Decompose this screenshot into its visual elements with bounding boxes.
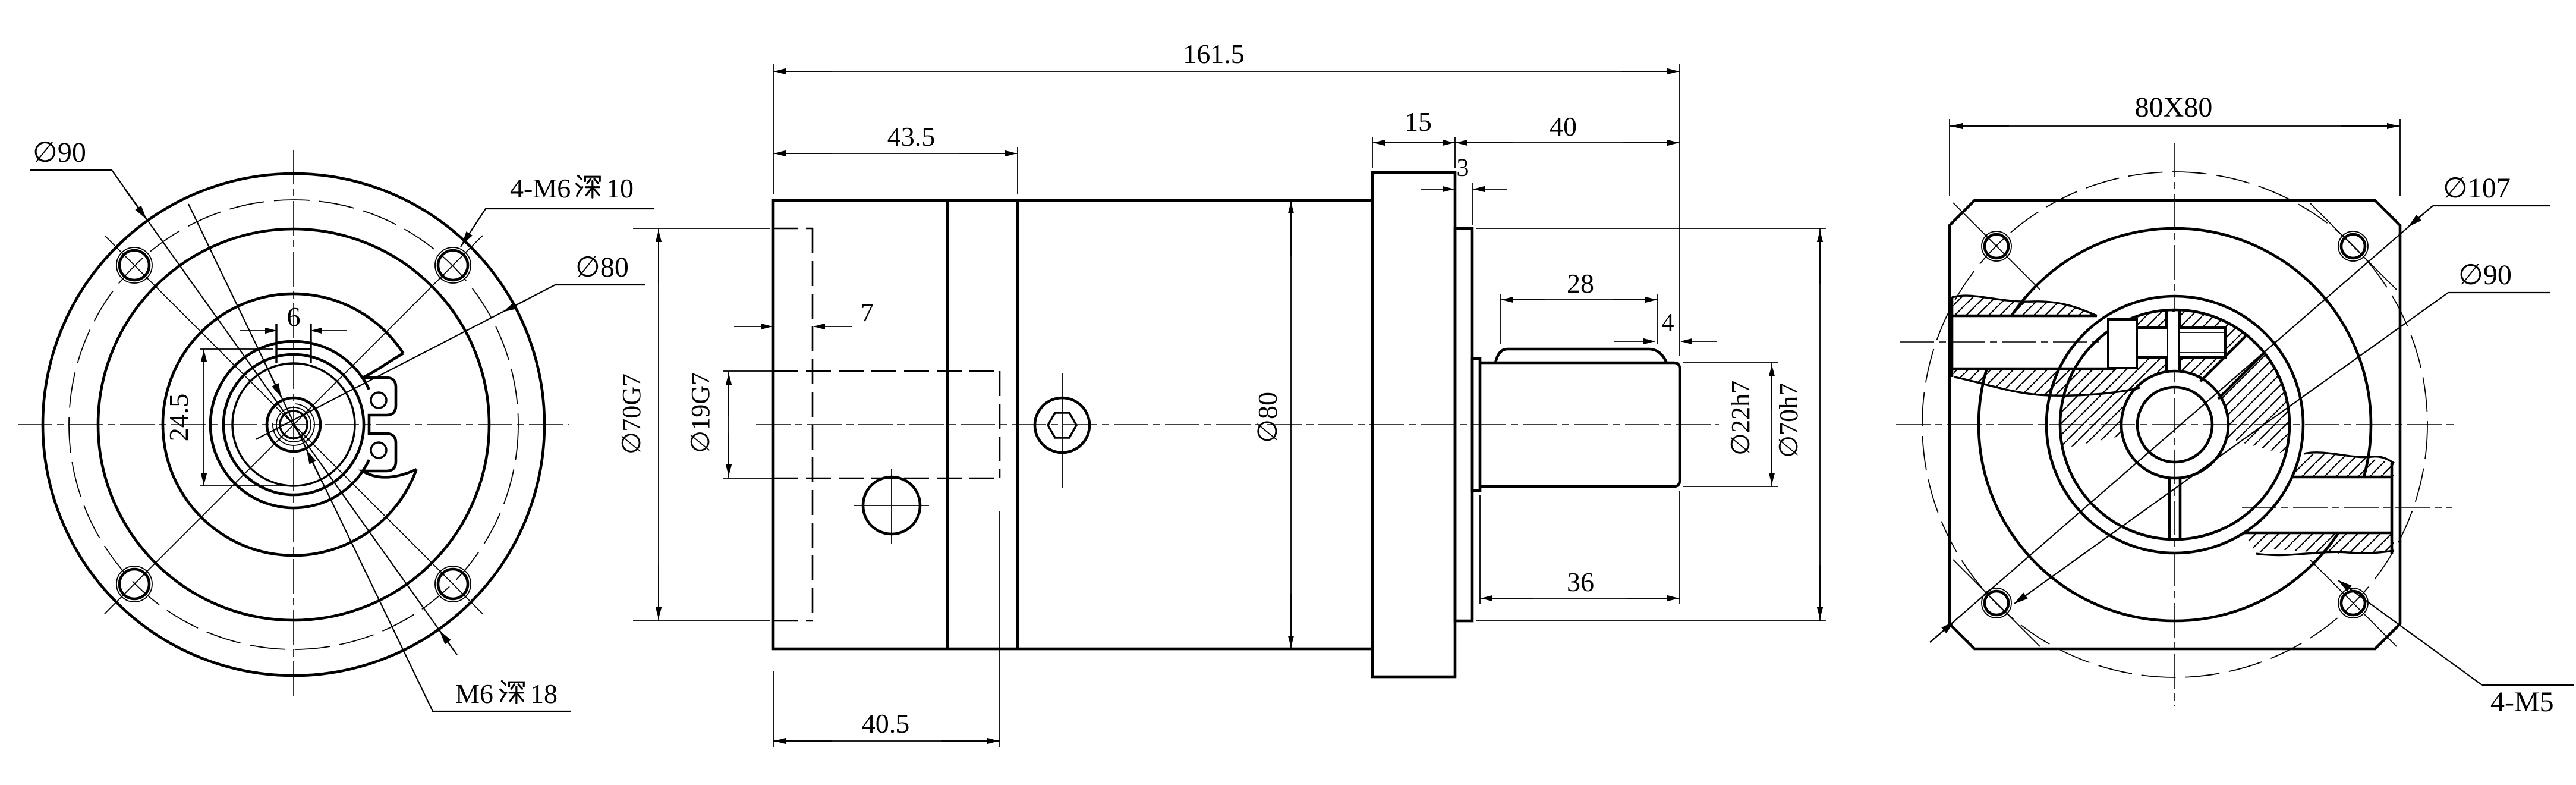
svg-text:∅22h7: ∅22h7 [1726, 381, 1755, 456]
bottom rib plain view [2169, 479, 2180, 539]
diagonal centerline TR-BL [105, 235, 483, 614]
circle r140 with gap [210, 341, 369, 508]
center boss circle r45 [267, 398, 320, 451]
svg-text:3: 3 [1457, 155, 1469, 182]
keyway slot top [276, 348, 311, 350]
label M6 deep18 text [455, 679, 558, 709]
dim d80 body [1290, 200, 1292, 649]
bracket tab hole lower [371, 442, 386, 458]
keyway slot left side [275, 324, 277, 363]
dim d22h7 [1683, 362, 1778, 363]
bolt circle d80 dashed [69, 200, 518, 649]
svg-text:36: 36 [1567, 567, 1594, 597]
svg-text:∅107: ∅107 [2443, 172, 2511, 204]
centerline vertical [293, 150, 294, 699]
dim 15 [1372, 137, 1373, 168]
svg-text:∅19G7: ∅19G7 [686, 372, 715, 453]
bolt hole BL [1953, 560, 2040, 646]
label d90 leader diameter line [112, 170, 454, 650]
dim 6 arrows [240, 330, 276, 331]
bolt hole bottom-left [116, 566, 152, 602]
svg-text:∅90: ∅90 [2458, 259, 2512, 291]
dim 28 [1500, 294, 1501, 344]
svg-text:40: 40 [1550, 111, 1577, 142]
centerline horizontal [18, 424, 569, 425]
svg-text:40.5: 40.5 [862, 708, 910, 739]
label 4-M6 deep10 text [510, 173, 634, 203]
hidden bore d19G7 [773, 371, 1000, 478]
main centerline [756, 424, 1719, 425]
bearing ring inner [2060, 310, 2290, 539]
dim d70G7 [633, 228, 770, 229]
label 4-M5 leader [2338, 580, 2482, 685]
bearing ring outer [2046, 296, 2303, 553]
dim 24.5 ext lines [200, 348, 273, 350]
label 4-M6 deep10 leader [461, 209, 654, 247]
svg-text:161.5: 161.5 [1183, 39, 1245, 69]
svg-text:6: 6 [287, 302, 301, 332]
dim 36 [1479, 495, 1481, 604]
carrier section hatch [2060, 310, 2290, 454]
dim 40.5 [773, 671, 774, 747]
bolt hole BR [2310, 560, 2397, 646]
joint line 1 [946, 200, 949, 649]
right port channel [2242, 453, 2452, 555]
clamp screw head [2108, 319, 2137, 368]
centerline vertical [2174, 143, 2175, 706]
thread circle M6 outer thin [276, 407, 311, 442]
clamp screw thread end [2180, 326, 2225, 359]
diagonal centerline TL-BR [105, 235, 483, 614]
output shaft d22h7 [1480, 363, 1680, 486]
clamp screw shank [2137, 328, 2167, 357]
svg-text:∅70h7: ∅70h7 [1774, 383, 1803, 458]
housing circle d70 [1979, 228, 2371, 621]
svg-text:15: 15 [1404, 106, 1432, 137]
svg-text:28: 28 [1567, 268, 1594, 299]
svg-text:∅80: ∅80 [575, 252, 629, 283]
svg-text:∅80: ∅80 [1252, 392, 1283, 443]
hidden bore d70G7 [773, 228, 813, 621]
output flange [1372, 172, 1455, 677]
dim 4 [1614, 341, 1655, 342]
svg-text:24.5: 24.5 [163, 394, 194, 442]
thin partial circle r35 [273, 404, 314, 445]
tapped hole M6 inner [280, 411, 307, 438]
dim 40 [1455, 142, 1680, 143]
dim 80X80 [1949, 119, 1950, 196]
label d107 leader [1930, 206, 2433, 642]
plug hole [863, 477, 920, 534]
svg-text:18: 18 [530, 679, 558, 709]
dim 7 [734, 326, 772, 327]
dim 43.5 [1017, 147, 1018, 194]
rib white band top [2166, 310, 2180, 372]
shaft key [1495, 349, 1667, 363]
keyway slot right side [310, 324, 311, 363]
left port channel [1900, 296, 2140, 397]
hub circle with gap at bracket [163, 294, 417, 555]
bolt circle d90 dashed [1922, 172, 2427, 677]
bolt hole bottom-right [435, 566, 471, 602]
svg-text:4-M5: 4-M5 [2490, 686, 2554, 718]
square flange outline with chamfered corners [1950, 200, 2400, 649]
joint line 2 [1016, 200, 1019, 649]
centerline horizontal [1896, 424, 2454, 425]
svg-text:4: 4 [1662, 309, 1674, 337]
label M6 deep18 leader [188, 204, 571, 711]
svg-text:43.5: 43.5 [887, 121, 936, 152]
terminal bracket with two tabs [363, 353, 417, 477]
bracket tab hole upper [371, 392, 386, 408]
dim d19G7 [723, 370, 773, 372]
svg-text:10: 10 [606, 173, 634, 203]
dim 24.5 line [203, 349, 204, 486]
svg-text:80X80: 80X80 [2135, 92, 2213, 123]
dim 3 [1472, 183, 1473, 225]
hub circle d19 [2121, 371, 2228, 478]
bolt hole top-right [435, 247, 471, 283]
dim d70h7 [1476, 228, 1826, 229]
outer circle d90 [43, 174, 544, 676]
rib white band 45 NE [2200, 336, 2263, 399]
pilot disc d70h7 [1455, 228, 1472, 621]
label d90 leader [2014, 293, 2448, 604]
svg-text:4-M6: 4-M6 [510, 173, 571, 203]
dim 161.5 [773, 64, 774, 194]
bolt hole TR [2310, 203, 2397, 290]
spigot circle d70 [98, 229, 489, 620]
circle r118 [223, 354, 364, 495]
label d80 leader [256, 285, 645, 439]
bolt hole top-left [116, 247, 152, 283]
body outline [773, 200, 1372, 649]
hub bore circle [2137, 387, 2212, 462]
hex socket screw [1035, 398, 1089, 453]
svg-text:7: 7 [861, 298, 874, 327]
collar at shaft root [1472, 359, 1480, 491]
bolt hole TL [1953, 203, 2040, 290]
svg-text:∅90: ∅90 [33, 137, 86, 168]
bore circle r103 [232, 363, 355, 486]
svg-text:∅70G7: ∅70G7 [617, 373, 646, 454]
svg-text:M6: M6 [455, 679, 493, 709]
